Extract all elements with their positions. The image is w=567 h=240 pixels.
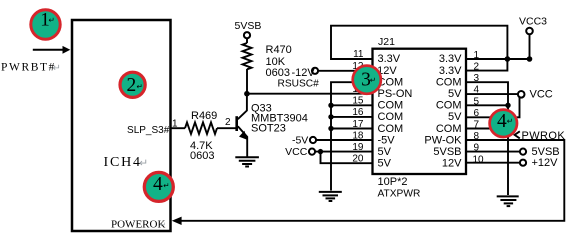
wire -12V to pin 12 <box>318 70 372 72</box>
wire pin 16 stub <box>331 116 373 118</box>
junction dot pin1/pin2 column <box>505 56 511 62</box>
svg-text:17: 17 <box>352 119 364 130</box>
svg-text:↵: ↵ <box>370 76 376 85</box>
ground for Q33 emitter <box>235 156 259 158</box>
op-amp U1 ICH4 box <box>72 20 171 231</box>
svg-text:COM: COM <box>436 76 462 88</box>
svg-text:20: 20 <box>352 154 364 165</box>
junction dot pin 5 <box>505 103 510 108</box>
connector J21 box <box>373 49 467 174</box>
node PWROK label <box>515 131 520 138</box>
svg-text:COM: COM <box>378 111 404 123</box>
svg-text:5VSB: 5VSB <box>433 146 461 158</box>
svg-text:COM: COM <box>436 100 462 112</box>
svg-text:10: 10 <box>473 154 485 165</box>
transistor Q2 Q33 base bar <box>235 116 238 131</box>
svg-text:RSUSC#: RSUSC# <box>278 78 320 89</box>
svg-text:J21: J21 <box>378 36 395 48</box>
wire pin 7 stub <box>466 128 508 130</box>
resistor R469 <box>185 122 217 134</box>
wire pin 11 over the top to pin 2 column <box>331 26 507 71</box>
svg-text:VCC3: VCC3 <box>519 16 547 28</box>
svg-text:3.3V: 3.3V <box>439 53 462 65</box>
junction dot VCC pin19/pin20 <box>318 149 323 154</box>
svg-text:5V: 5V <box>378 158 392 170</box>
wire pin 5 stub <box>466 104 508 106</box>
power VCC terminal right <box>466 93 518 95</box>
svg-text:2: 2 <box>474 62 480 73</box>
svg-text:↵: ↵ <box>49 16 55 25</box>
svg-text:PWRBT#: PWRBT# <box>1 62 56 74</box>
svg-text:PW-OK: PW-OK <box>424 134 462 146</box>
wire PWRBT# input arrow <box>33 49 64 51</box>
svg-text:15: 15 <box>352 96 364 107</box>
node RSUSC# junction dot <box>244 91 250 97</box>
wire pin 17 stub <box>331 128 373 130</box>
svg-text:-5V: -5V <box>292 135 308 147</box>
svg-text:↵: ↵ <box>163 181 169 190</box>
svg-text:2: 2 <box>127 75 137 96</box>
svg-text:4: 4 <box>497 111 507 132</box>
svg-text:POWEROK: POWEROK <box>111 218 165 230</box>
svg-text:VCC: VCC <box>285 146 308 158</box>
marker callout 1 <box>31 10 60 39</box>
svg-text:↵: ↵ <box>53 63 61 74</box>
transistor Q33 emitter <box>238 126 247 157</box>
wire pin 15 stub <box>331 104 373 106</box>
resistor R470 <box>243 43 252 69</box>
svg-text:COM: COM <box>378 123 404 135</box>
svg-text:11: 11 <box>353 49 364 60</box>
wire pin 1 to VCC3 <box>466 58 530 60</box>
svg-text:SOT23: SOT23 <box>251 123 286 135</box>
svg-text:↵: ↵ <box>137 82 143 91</box>
marker callout 4 on PWROK <box>490 110 517 137</box>
marker callout 2 <box>120 72 145 97</box>
wire RSUSC# to PS-ON pin 14 <box>247 93 373 95</box>
svg-text:10K: 10K <box>266 56 286 68</box>
wire R470 to node RSUSC# <box>246 69 248 94</box>
svg-text:PS-ON: PS-ON <box>378 88 413 100</box>
svg-text:ATXPWR: ATXPWR <box>378 189 421 200</box>
svg-text:COM: COM <box>436 123 462 135</box>
wire pin 8 PW-OK to POWEROK arrow <box>180 140 564 221</box>
svg-text:↵: ↵ <box>160 221 166 229</box>
svg-text:3.3V: 3.3V <box>439 65 462 77</box>
svg-text:0603: 0603 <box>190 150 214 162</box>
wire -5V to pin 18 <box>316 139 372 141</box>
svg-text:R470: R470 <box>266 44 292 56</box>
svg-text:16: 16 <box>352 107 364 118</box>
svg-text:+12V: +12V <box>532 157 559 169</box>
wire left COM ground bus <box>331 82 373 190</box>
wire right COM ground bus <box>466 82 508 195</box>
ground for left COM bus <box>319 191 342 193</box>
svg-text:5VSB: 5VSB <box>235 20 262 32</box>
svg-text:-5V: -5V <box>378 134 396 146</box>
power +12V terminal right <box>466 162 520 164</box>
junction dot pin1/VCC3 <box>527 56 533 62</box>
wire pin 6 to VCC <box>466 98 520 118</box>
svg-text:VCC: VCC <box>530 89 553 101</box>
wire VCC branch to pin 20 <box>321 152 373 164</box>
svg-text:COM: COM <box>378 100 404 112</box>
wire R469 to Q33 base <box>217 127 236 129</box>
svg-text:0603: 0603 <box>266 67 290 79</box>
svg-text:3.3V: 3.3V <box>378 53 401 65</box>
ground for right COM bus <box>497 195 519 197</box>
marker callout 4 on ICH4 <box>144 172 173 201</box>
junction dot pin 16 <box>328 114 333 119</box>
junction dot pin 17 <box>328 126 333 131</box>
wire SLP_S3# to R469 <box>171 127 186 129</box>
svg-text:4: 4 <box>153 174 163 195</box>
svg-text:5V: 5V <box>448 111 462 123</box>
svg-text:ICH4: ICH4 <box>104 155 142 170</box>
svg-text:SLP_S3#: SLP_S3# <box>127 125 170 136</box>
power 5VSB terminal right <box>466 151 520 153</box>
svg-text:19: 19 <box>352 142 364 153</box>
marker callout 3 <box>353 66 381 94</box>
svg-text:↵: ↵ <box>507 117 513 126</box>
svg-text:12V: 12V <box>442 158 462 170</box>
svg-text:PWROK: PWROK <box>522 130 566 142</box>
svg-text:↵: ↵ <box>139 158 148 170</box>
svg-text:10P*2: 10P*2 <box>378 176 408 188</box>
wire VCC to pin 19 <box>315 151 372 153</box>
svg-text:5V: 5V <box>378 146 392 158</box>
transistor Q33 collector <box>238 94 247 120</box>
svg-text:2: 2 <box>225 117 231 128</box>
junction dot pin 7 <box>505 126 510 131</box>
svg-text:R469: R469 <box>191 110 217 122</box>
svg-text:18: 18 <box>352 130 364 141</box>
junction dot pin 15 <box>328 103 333 108</box>
svg-text:5V: 5V <box>448 88 462 100</box>
